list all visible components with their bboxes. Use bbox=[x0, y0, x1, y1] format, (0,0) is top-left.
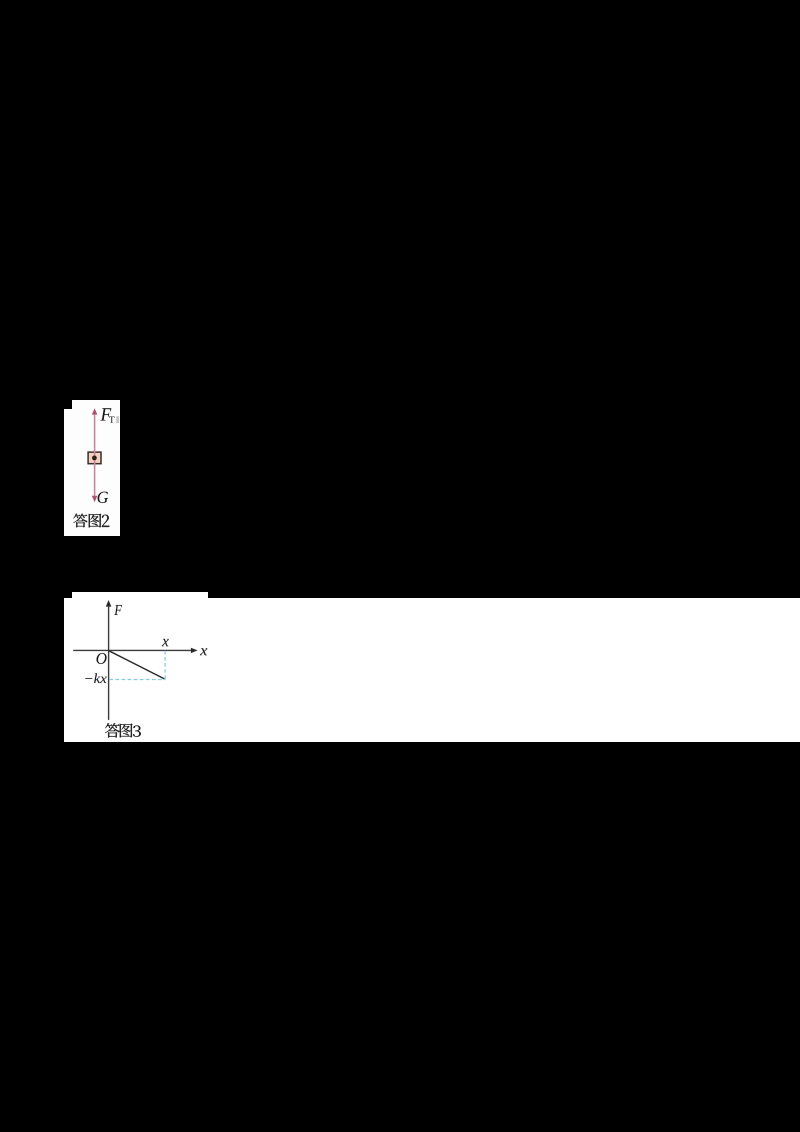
figure 2: arrowhead down of G bbox=[92, 496, 98, 502]
white panel: answer figure 2 background bbox=[64, 409, 120, 536]
figure 2: label subscript T bbox=[109, 416, 114, 422]
figure 3: line F = -kx bbox=[109, 651, 165, 679]
figure 3: dashed guide horizontal at -kx bbox=[109, 679, 165, 681]
figure 3: label x above axis bbox=[162, 639, 169, 646]
figure 3: F axis (vertical) bbox=[108, 606, 110, 720]
figure 2: center-of-mass dot bbox=[92, 456, 97, 461]
figure 3: dashed guide vertical at x bbox=[164, 651, 166, 680]
figure 2: label F bbox=[100, 408, 111, 420]
figure 3: origin label O bbox=[97, 653, 107, 664]
figure 3: x axis (horizontal) bbox=[73, 649, 192, 651]
white panel: answer figure 2 background top part bbox=[72, 400, 120, 409]
figure 3: label -kx bbox=[85, 673, 106, 683]
figure 2: caption 答图2 bbox=[73, 514, 109, 528]
figure 3: label F on vertical axis bbox=[114, 605, 122, 615]
figure 2: label G bbox=[98, 492, 108, 503]
figure 2: weight force arrow G (downward) shaft bbox=[94, 457, 96, 496]
figure 3: F axis arrowhead bbox=[106, 600, 112, 607]
figure 3: x axis arrowhead bbox=[191, 648, 198, 653]
white panel: answer figure 3 background top strip bbox=[72, 592, 209, 598]
white panel: answer figure 3 background band bbox=[64, 598, 800, 743]
figure 3: caption 答图3 bbox=[105, 723, 141, 737]
figure 2: arrowhead up of F_T bbox=[92, 408, 98, 414]
figure 2: tension force arrow F_T (upward) shaft bbox=[94, 414, 96, 457]
figure 2: gray artifact box at right edge bbox=[116, 416, 119, 423]
figure 2: mass block box bbox=[88, 452, 101, 464]
figure 3: label x on horizontal axis bbox=[200, 648, 207, 655]
